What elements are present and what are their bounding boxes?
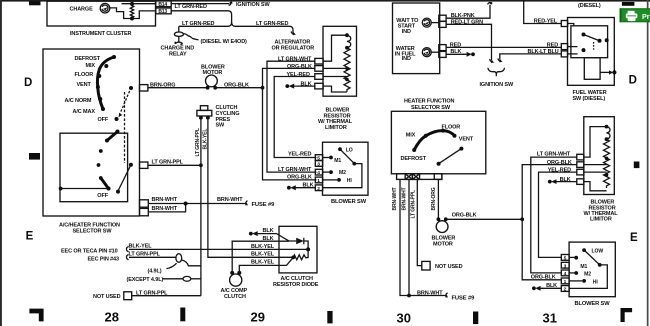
pin 4 resistor right <box>577 179 584 185</box>
wire LT GRN-RED B14 to ignition sw <box>171 2 270 10</box>
svg-text:BRN-WHT: BRN-WHT <box>152 197 178 203</box>
svg-text:E: E <box>630 232 638 244</box>
svg-text:Prin: Prin <box>642 12 650 21</box>
svg-text:A/C NORM: A/C NORM <box>65 98 92 104</box>
svg-text:EEC OR TECA PIN #10: EEC OR TECA PIN #10 <box>61 248 118 254</box>
svg-text:28: 28 <box>105 310 119 325</box>
blower sw right contacts LOW M1 M2 HI <box>569 248 607 288</box>
svg-text:DEFROST: DEFROST <box>75 56 101 62</box>
svg-text:IGNITION SW: IGNITION SW <box>236 2 270 8</box>
wire BRN-ORG selector to blower motor <box>148 82 208 88</box>
svg-text:LT GRN-PPL: LT GRN-PPL <box>410 190 416 218</box>
wire BLK-YEL EEC pin 10 to diode junction <box>129 244 309 250</box>
svg-text:RESISTOR DIODE: RESISTOR DIODE <box>273 282 319 288</box>
pin LT GRN-PPL on selector <box>140 162 148 168</box>
svg-text:BRN-WHT: BRN-WHT <box>402 187 408 210</box>
svg-text:A/C/HEATER FUNCTION: A/C/HEATER FUNCTION <box>59 223 120 229</box>
wire BLK-PNK up to top edge <box>446 2 492 18</box>
pin BRN-WHT lower on selector <box>140 208 149 215</box>
pin 1 blower sw right <box>561 278 569 285</box>
heater selector arc contacts <box>412 129 456 152</box>
svg-text:LIMITOR: LIMITOR <box>590 217 612 223</box>
wire BLK stub into diode <box>249 228 289 242</box>
wire LT GRN-PPL (right) to not used <box>410 179 421 265</box>
pin 2 blower sw right <box>561 286 569 293</box>
fuse #9 hook (right) <box>417 290 475 301</box>
selector mode arc contacts <box>96 55 119 121</box>
pin 1 blower sw <box>315 177 322 184</box>
print button UI <box>620 8 650 22</box>
svg-text:2: 2 <box>317 186 320 192</box>
svg-text:1: 1 <box>317 178 320 184</box>
svg-text:LT GRN-RED: LT GRN-RED <box>175 4 207 10</box>
svg-text:ORG-BLK: ORG-BLK <box>452 213 477 219</box>
svg-text:M1: M1 <box>580 264 587 270</box>
wire BLK-YEL vertical (clutch sw to resistor diode) <box>203 118 293 257</box>
blower resistor w/ thermal limitor (left) <box>318 26 357 131</box>
BLK-YEL labels at diode box <box>251 244 275 266</box>
svg-text:(4.9L): (4.9L) <box>148 268 162 274</box>
svg-text:BLK-YEL: BLK-YEL <box>251 259 275 265</box>
svg-text:CHARGE: CHARGE <box>70 6 94 12</box>
svg-text:(EXCEPT 4.9L): (EXCEPT 4.9L) <box>127 277 164 283</box>
svg-text:MIX: MIX <box>406 132 416 138</box>
ignition sw brace symbol <box>480 68 514 88</box>
svg-text:CLUTCH: CLUTCH <box>224 294 246 300</box>
svg-text:BRN-WHT: BRN-WHT <box>417 290 443 296</box>
svg-text:(DIESEL W/ E4OD): (DIESEL W/ E4OD) <box>201 39 248 45</box>
svg-text:SW (DIESEL): SW (DIESEL) <box>573 96 606 102</box>
svg-text:BLOWER SW: BLOWER SW <box>575 301 611 307</box>
svg-text:BLOWER SW: BLOWER SW <box>331 199 367 205</box>
pin RED <box>439 45 446 51</box>
pin RED-YEL fuel water sw <box>561 21 567 27</box>
pin 3 blower sw right <box>561 262 569 269</box>
fuel water switch (diesel) <box>568 18 615 102</box>
svg-text:VENT: VENT <box>459 137 474 143</box>
pin RED fuel water sw <box>561 44 567 50</box>
wire BLK (right resistor) stub <box>548 177 577 184</box>
svg-text:YEL-RED: YEL-RED <box>548 168 571 174</box>
svg-text:IND: IND <box>402 29 411 35</box>
A/C clutch resistor diode box <box>273 226 319 288</box>
svg-text:SELECTOR SW: SELECTOR SW <box>411 105 451 111</box>
svg-text:2: 2 <box>564 287 567 293</box>
wire YEL-RED (right) resistor to blower sw pin 5 <box>539 168 577 258</box>
wire BRN-WHT (right v1) to fuse #9 <box>392 179 446 295</box>
wait to start indicator lamp <box>422 18 439 27</box>
svg-text:HI: HI <box>593 279 599 285</box>
svg-text:1: 1 <box>564 279 567 285</box>
svg-text:4: 4 <box>317 170 320 176</box>
svg-text:ORG-BLK: ORG-BLK <box>547 160 572 166</box>
svg-text:OR REGULATOR: OR REGULATOR <box>272 46 315 52</box>
heater selector pin strip with keyed pins <box>397 174 442 180</box>
svg-text:BLK-YEL: BLK-YEL <box>251 252 275 258</box>
svg-text:B14: B14 <box>158 2 167 8</box>
svg-text:M1: M1 <box>334 158 341 164</box>
pin BLK <box>439 51 446 57</box>
pin 4 resistor <box>315 83 323 89</box>
resistor element & coil (right) <box>584 125 610 191</box>
pin 3 resistor <box>315 74 323 80</box>
svg-text:M2: M2 <box>584 272 591 278</box>
diode D1 <box>289 238 310 252</box>
pin RED-LT GRN <box>439 21 446 27</box>
svg-text:E: E <box>26 231 34 243</box>
wire RED to fuel water sw <box>446 43 561 49</box>
svg-text:YEL-RED: YEL-RED <box>288 152 311 158</box>
wire charge lamp to B13 via resistor bottom <box>110 8 156 19</box>
svg-text:IND: IND <box>402 56 411 62</box>
svg-text:29: 29 <box>251 310 265 325</box>
svg-text:B13: B13 <box>158 9 167 15</box>
svg-text:BLK-YEL: BLK-YEL <box>251 244 275 250</box>
svg-text:RELAY: RELAY <box>169 51 187 57</box>
heater function selector switch (right) <box>391 98 485 173</box>
blower sw contacts LO M1 M2 HI <box>323 147 362 187</box>
svg-text:BRN-WHT: BRN-WHT <box>217 197 243 203</box>
wire RED-YEL from top to fuel water sw <box>524 0 562 25</box>
svg-text:ORG-BLK: ORG-BLK <box>287 174 312 180</box>
svg-text:OFF: OFF <box>98 117 109 123</box>
pin 2 resistor right <box>577 162 584 168</box>
svg-text:A/C MAX: A/C MAX <box>73 109 96 115</box>
A/C heater function selector switch SW1 <box>43 49 140 216</box>
water in fuel indicator lamp <box>422 48 439 57</box>
svg-text:BLK: BLK <box>263 236 274 242</box>
EEC OR TECA PIN #10 node <box>61 247 129 255</box>
svg-text:FUSE #9: FUSE #9 <box>452 296 476 302</box>
svg-text:M2: M2 <box>339 170 346 176</box>
wire BLK comp clutch to diode <box>232 241 289 273</box>
svg-text:INSTRUMENT CLUSTER: INSTRUMENT CLUSTER <box>70 31 132 37</box>
svg-text:D: D <box>24 77 32 89</box>
selector wiper (dashed) upper <box>119 86 133 163</box>
clutch cycling pressure switch <box>197 105 240 129</box>
svg-text:NOT USED: NOT USED <box>93 294 121 300</box>
svg-text:HI: HI <box>347 178 353 184</box>
fuel water sw sensor block <box>584 58 616 80</box>
wire ORG-BLK resistor to motor junction to blower sw pin 1 <box>263 64 317 181</box>
svg-text:SW: SW <box>216 123 226 129</box>
svg-text:D: D <box>629 75 637 87</box>
svg-text:MOTOR: MOTOR <box>203 70 223 76</box>
svg-text:31: 31 <box>543 311 557 326</box>
selector lower switch contacts <box>59 130 133 194</box>
resistor R1 (clutch diode resistor) <box>291 249 308 259</box>
blower switch (right) <box>569 242 615 307</box>
wire LT GRN-PPL EEC pin 43 via 4.9L splice <box>129 252 201 275</box>
selector sw caption <box>59 223 120 235</box>
wire YEL-RED resistor to blower sw pin 5 <box>274 72 316 158</box>
svg-text:LT GRN-RED: LT GRN-RED <box>256 21 288 27</box>
wire LT GRN-PPL vertical (clutch sw to EEC/not-used net) <box>195 118 203 296</box>
pin 3 resistor right <box>577 169 584 175</box>
connector pin B13 <box>156 8 171 15</box>
svg-text:MIX: MIX <box>86 63 96 69</box>
svg-text:5: 5 <box>564 256 567 262</box>
svg-text:LT GRN-PPL: LT GRN-PPL <box>195 128 201 156</box>
wire ORG-BLK vertical (right) resistor to blower sw pin 1 <box>522 160 577 281</box>
wire ORG-BLK motor to junction <box>215 82 264 89</box>
svg-text:BRN-WHT: BRN-WHT <box>152 206 178 212</box>
svg-text:(DIESEL): (DIESEL) <box>578 3 601 9</box>
NOT USED terminal (right) <box>422 261 463 270</box>
EEC PIN #43 node <box>88 255 129 263</box>
svg-text:LOW: LOW <box>592 248 604 254</box>
svg-text:30: 30 <box>397 311 411 326</box>
svg-text:NOT USED: NOT USED <box>435 264 463 270</box>
svg-text:DEFROST: DEFROST <box>401 156 427 162</box>
charge indicator lamp <box>70 3 110 13</box>
wire (EXCEPT 4.9L) splice <box>127 276 201 282</box>
svg-text:BLK-YEL: BLK-YEL <box>203 129 209 150</box>
svg-text:LIMITOR: LIMITOR <box>325 125 347 131</box>
wire LT GRN-WHT resistor to blower sw pin 4 <box>267 57 317 174</box>
pin 2 resistor <box>315 66 323 72</box>
svg-text:SELECTOR SW: SELECTOR SW <box>73 229 113 235</box>
wire BRN-WHT selector to fuse #9 <box>148 197 275 212</box>
svg-text:3: 3 <box>317 162 320 168</box>
charge ind relay <box>161 26 195 57</box>
wire BLK-YEL comp clutch to resistor <box>239 257 293 273</box>
wire LT GRN-RED B13 split to relay and alternator <box>171 11 314 52</box>
fuel water sw contacts <box>568 24 609 54</box>
svg-text:VENT: VENT <box>77 82 92 88</box>
connector pin B14 <box>156 1 171 8</box>
wire LT GRN-WHT (right) resistor to blower sw pin 4 <box>531 151 577 273</box>
pin BRN-ORG on selector <box>140 85 148 91</box>
pin 4 blower sw <box>315 169 322 176</box>
svg-text:MOTOR: MOTOR <box>433 241 453 247</box>
pin BRN-WHT upper on selector <box>140 200 149 207</box>
svg-text:OFF: OFF <box>97 193 108 199</box>
wire RED-LT GRN to ignition sw <box>446 19 493 62</box>
svg-text:BRN-WHT: BRN-WHT <box>392 187 398 210</box>
blower motor (right) <box>432 217 456 247</box>
wire BLK stub <box>446 49 475 57</box>
A/C comp clutch <box>221 271 248 300</box>
pin 3 blower sw <box>315 161 322 168</box>
pin 1 resistor right <box>577 154 584 160</box>
pin BLK-PNK <box>439 15 446 21</box>
svg-text:EEC PIN #43: EEC PIN #43 <box>88 257 119 263</box>
svg-text:FLOOR: FLOOR <box>75 72 94 78</box>
wire BLK blower sw right pin 2 stub <box>532 283 561 291</box>
svg-text:3: 3 <box>564 263 567 269</box>
wire BLK-LT BLU to ignition sw <box>498 49 561 62</box>
NOT USED terminal <box>93 291 201 300</box>
wire squiggle to (DIESEL W/ E4OD) <box>183 34 247 45</box>
svg-text:FUSE #9: FUSE #9 <box>252 202 276 208</box>
wire LT GRN-PPL selector to junction <box>148 160 201 166</box>
resistor (cluster shunt) <box>130 2 134 21</box>
pin 5 blower sw right <box>561 255 569 262</box>
wire resistor top to B14 <box>122 3 156 5</box>
svg-text:ORG-BLK: ORG-BLK <box>531 274 556 280</box>
heater selector wiper <box>437 147 464 166</box>
resistor element & thermal limitor coil <box>323 33 351 92</box>
blower motor M1 <box>201 64 225 89</box>
wire ORG-BLK motor to junction (right) <box>446 213 524 222</box>
wire BRN-ORG (right) to blower motor <box>431 179 438 219</box>
wait to start / water in fuel indicator box <box>393 3 440 74</box>
pin 1 resistor <box>315 58 323 64</box>
svg-text:4: 4 <box>564 271 567 277</box>
svg-text:LT GRN-WHT: LT GRN-WHT <box>278 167 312 173</box>
pin 4 blower sw right <box>561 270 569 277</box>
pin 5 blower sw <box>315 155 322 162</box>
blower switch (left) <box>323 142 369 205</box>
svg-text:LO: LO <box>346 147 353 153</box>
svg-text:BRN-ORG: BRN-ORG <box>431 187 437 210</box>
svg-text:IGNITION SW: IGNITION SW <box>480 82 514 88</box>
wire BLK resistor ground stub <box>285 82 315 89</box>
instrument cluster box <box>47 1 156 37</box>
blower resistor w/ thermal limitor (right) <box>584 117 619 223</box>
pin BLK-LT BLU fuel water sw <box>561 51 567 57</box>
svg-text:HEATER FUNCTION: HEATER FUNCTION <box>404 98 454 104</box>
wire BRN-WHT (right v2) <box>402 179 411 297</box>
wire BLK blower sw pin 2 stub <box>287 183 315 191</box>
pin 2 blower sw <box>315 185 322 192</box>
svg-text:LT GRN-WHT: LT GRN-WHT <box>537 151 571 157</box>
svg-text:LT GRN-RED: LT GRN-RED <box>182 21 214 27</box>
